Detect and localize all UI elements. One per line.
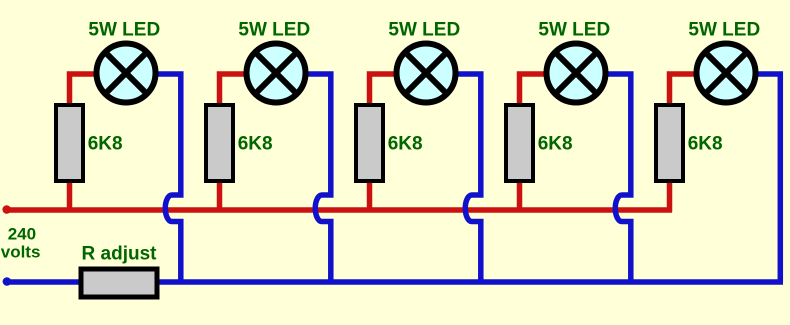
svg-text:240: 240	[8, 224, 36, 243]
svg-text:5W LED: 5W LED	[688, 20, 760, 41]
svg-text:6K8: 6K8	[688, 134, 723, 155]
svg-text:volts: volts	[1, 243, 41, 262]
svg-text:5W LED: 5W LED	[88, 20, 160, 41]
svg-text:R adjust: R adjust	[82, 243, 158, 264]
svg-text:6K8: 6K8	[238, 134, 273, 155]
svg-text:6K8: 6K8	[88, 134, 123, 155]
svg-text:6K8: 6K8	[538, 134, 573, 155]
svg-text:5W LED: 5W LED	[388, 20, 460, 41]
svg-text:6K8: 6K8	[388, 134, 423, 155]
svg-text:5W LED: 5W LED	[538, 20, 610, 41]
svg-text:5W LED: 5W LED	[238, 20, 310, 41]
